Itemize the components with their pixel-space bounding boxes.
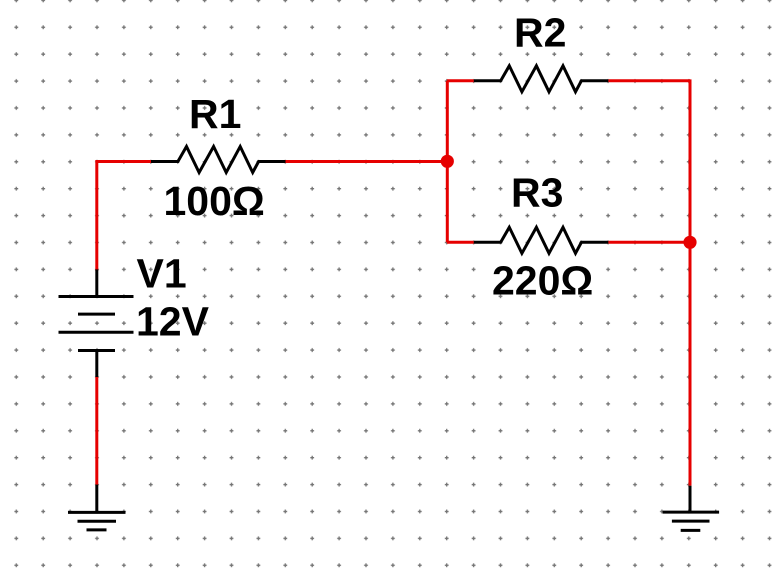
resistor R3 xyxy=(474,227,609,253)
wire R3 to node B xyxy=(608,241,690,244)
node A junction dot xyxy=(441,155,454,168)
resistor R1 xyxy=(151,147,286,173)
svg-text:12V: 12V xyxy=(136,299,210,345)
wire node A vertical (R2 branch to R3 branch) xyxy=(446,81,449,243)
battery V1 xyxy=(59,269,134,377)
svg-text:R1: R1 xyxy=(189,91,241,137)
svg-text:R3: R3 xyxy=(511,170,563,216)
wire node A to R2 xyxy=(447,79,474,82)
wire battery-top to R1 (red L corner) xyxy=(97,162,151,271)
wire battery-bottom to ground xyxy=(95,377,98,485)
wire right rail vertical xyxy=(689,79,692,485)
resistor R2 xyxy=(474,66,609,92)
wire node A to R3 xyxy=(447,241,474,244)
svg-text:220Ω: 220Ω xyxy=(492,258,593,304)
svg-text:100Ω: 100Ω xyxy=(164,178,265,224)
node B junction dot xyxy=(683,236,696,249)
ground (left) xyxy=(68,485,126,530)
svg-text:V1: V1 xyxy=(137,250,187,296)
ground (right) xyxy=(663,486,720,531)
wire R2 to right rail xyxy=(608,79,690,82)
wire R1 to node A xyxy=(286,160,447,163)
svg-text:R2: R2 xyxy=(514,10,566,56)
